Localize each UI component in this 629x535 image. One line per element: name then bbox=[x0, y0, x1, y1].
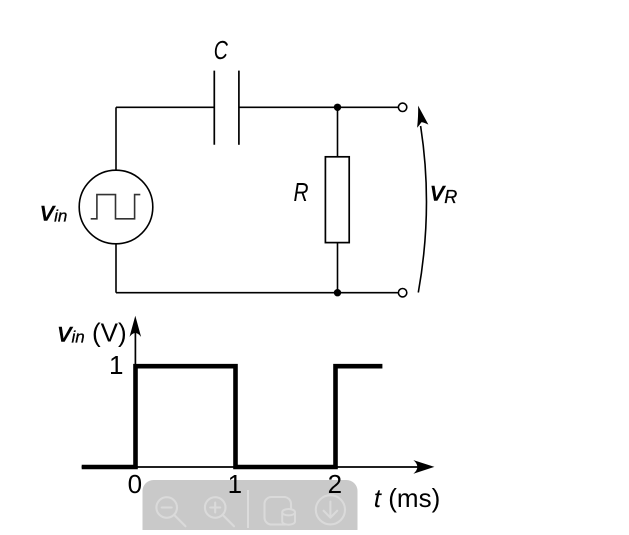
svg-text:R: R bbox=[294, 178, 309, 207]
svg-text:vin (V): vin (V) bbox=[58, 317, 127, 348]
terminal top open circle bbox=[398, 103, 406, 111]
node junction top bbox=[334, 104, 341, 111]
y-axis bbox=[134, 330, 136, 467]
svg-text:2: 2 bbox=[328, 469, 342, 499]
svg-text:1: 1 bbox=[228, 469, 242, 499]
toolbar zoom-in icon bbox=[205, 497, 234, 526]
svg-text:0: 0 bbox=[128, 469, 142, 499]
vin square wave trace bbox=[82, 366, 383, 467]
wire left vertical lower bbox=[115, 244, 117, 293]
toolbar download icon bbox=[316, 495, 345, 524]
terminal bottom open circle bbox=[398, 289, 406, 297]
vR arrowhead bbox=[417, 106, 428, 128]
toolbar copy-figure icon bbox=[265, 497, 296, 525]
svg-text:1: 1 bbox=[109, 350, 123, 380]
wire top-right horizontal bbox=[239, 106, 398, 108]
wire left vertical bbox=[115, 107, 117, 170]
svg-text:C: C bbox=[214, 35, 228, 64]
wire resistor bottom bbox=[337, 243, 339, 293]
toolbar separator bbox=[247, 490, 249, 528]
source square-wave glyph bbox=[91, 195, 141, 219]
vR arc arrow bbox=[418, 126, 426, 293]
svg-text:t (ms): t (ms) bbox=[374, 483, 440, 513]
x-axis arrowhead bbox=[413, 460, 434, 474]
toolbar zoom-out icon bbox=[156, 497, 185, 526]
source Vin circle bbox=[79, 170, 153, 244]
toolbar background bbox=[143, 480, 358, 535]
capacitor C1 plates bbox=[214, 71, 239, 145]
y-axis arrowhead bbox=[130, 316, 142, 337]
wire resistor top bbox=[337, 107, 339, 157]
x-axis bbox=[82, 466, 420, 468]
wire bottom horizontal bbox=[116, 292, 398, 294]
resistor R1 body bbox=[325, 157, 349, 243]
node junction bottom bbox=[334, 289, 341, 296]
wire top-left horizontal bbox=[116, 106, 214, 108]
